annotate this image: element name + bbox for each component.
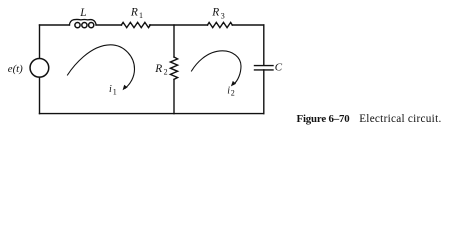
arrowhead i1 (123, 85, 128, 91)
inductor L (69, 19, 96, 27)
svg-text:2: 2 (164, 68, 168, 77)
capacitor C bottom plate (255, 69, 274, 71)
svg-text:Electrical circuit.: Electrical circuit. (359, 113, 441, 125)
wire middle branch lower (173, 80, 175, 114)
svg-text:R: R (154, 63, 162, 75)
svg-text:3: 3 (221, 11, 225, 20)
svg-text:1: 1 (113, 87, 117, 96)
wire R1 to R3 through top node (150, 24, 208, 26)
svg-text:2: 2 (231, 89, 235, 98)
svg-text:i: i (227, 85, 230, 96)
wire R3 to top-right corner (232, 24, 263, 26)
resistor R2 (170, 57, 177, 79)
source e(t) circle (30, 58, 49, 77)
svg-text:C: C (275, 62, 283, 74)
svg-text:Figure 6–70: Figure 6–70 (297, 113, 350, 125)
mesh current arrow i2 (192, 51, 242, 85)
capacitor C top plate (255, 65, 274, 67)
resistor R3 (208, 22, 233, 27)
svg-text:i: i (109, 84, 112, 95)
wire right side upper (263, 25, 265, 65)
svg-text:R: R (130, 7, 138, 19)
wire right side lower (263, 70, 265, 114)
wire middle branch upper (173, 25, 175, 57)
svg-text:e(t): e(t) (8, 63, 23, 75)
wire left side upper (39, 25, 41, 58)
mesh current arrow i1 (68, 45, 135, 88)
svg-text:1: 1 (139, 11, 143, 20)
arrowhead i2 (231, 81, 236, 87)
wire between L and R1 (96, 24, 122, 26)
wire bottom (40, 113, 264, 115)
wire left side lower (39, 77, 41, 113)
resistor R1 (121, 22, 150, 27)
wire top-left horizontal (40, 24, 70, 26)
svg-text:L: L (79, 7, 86, 19)
svg-text:R: R (211, 7, 219, 19)
